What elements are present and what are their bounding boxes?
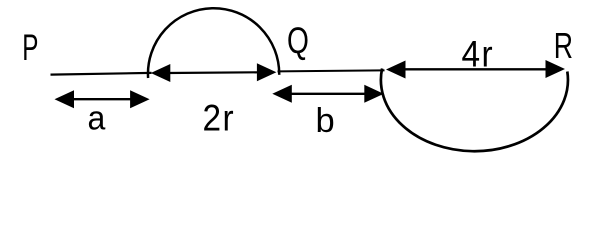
wire P to small semicircle [51,73,152,75]
svg-text:R: R [554,25,573,66]
node Q [287,20,309,62]
svg-text:4r: 4r [462,32,495,74]
label 4r [462,32,495,74]
node R [554,25,573,66]
label 2r [203,97,236,139]
label a [88,100,106,138]
svg-text:a: a [88,100,106,138]
node P [22,27,38,68]
svg-text:2r: 2r [203,97,236,139]
dimension arrow b [272,85,384,103]
semicircle 4r lower arc [381,69,568,152]
dimension arrow a [55,90,150,108]
svg-text:P: P [22,27,38,68]
wire Q to large semicircle [278,70,385,71]
svg-text:Q: Q [287,20,309,62]
svg-text:b: b [316,102,335,140]
semicircle 2r upper arc [148,8,279,78]
dimension arrow 2r diameter [151,63,277,82]
dimension arrow 4r [386,60,565,79]
